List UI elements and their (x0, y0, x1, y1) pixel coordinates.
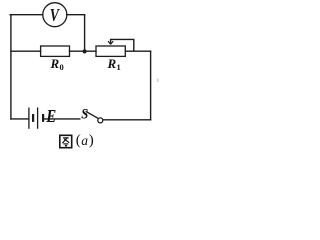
wire battery to switch (44, 118, 80, 120)
faint scan speck (157, 79, 159, 83)
svg-text:0: 0 (60, 62, 64, 72)
battery E plates (29, 108, 43, 129)
svg-text:1: 1 (117, 62, 121, 72)
wire rheostat slider bracket (111, 39, 134, 51)
svg-text:(: ( (76, 133, 81, 149)
battery short plate 2 (42, 114, 44, 122)
wire top-left horizontal to voltmeter (10, 14, 43, 16)
wire voltmeter right to corner (67, 14, 85, 16)
svg-text:a: a (81, 133, 88, 148)
resistor R1 box (96, 46, 125, 56)
battery short plate 1 (32, 114, 34, 122)
wire R0 row left (11, 50, 41, 52)
wire bottom right (103, 119, 151, 121)
rheostat slider arrowhead (108, 41, 113, 44)
wire vertical down to junction (84, 15, 86, 52)
wire R1 right (125, 50, 150, 52)
svg-text:): ) (89, 133, 94, 149)
svg-text:R: R (50, 56, 60, 71)
op-amp voltmeter V circle (43, 3, 67, 27)
svg-text:R: R (107, 56, 117, 71)
wire right vertical (150, 51, 152, 120)
battery long plate 1 (28, 108, 30, 129)
svg-text:S: S (81, 107, 88, 123)
svg-text:E: E (45, 106, 56, 126)
node junction dot (83, 49, 87, 53)
resistor R0 box (41, 46, 70, 56)
caption character 图 (60, 135, 72, 147)
wire between R0 and R1 (70, 50, 97, 52)
wire bottom left (11, 118, 28, 120)
svg-text:V: V (50, 5, 60, 25)
switch S lever (86, 112, 98, 119)
battery long plate 2 (37, 108, 39, 129)
switch S contact circle (98, 118, 103, 123)
wire left vertical (10, 15, 12, 119)
